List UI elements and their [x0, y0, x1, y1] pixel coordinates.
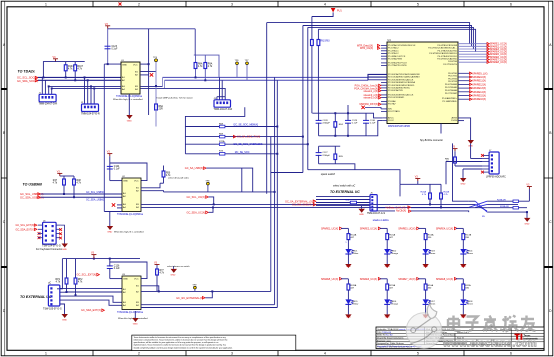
- chevrons right mid group: [470, 72, 472, 100]
- svg-text:I2C_SE_SOC_MEM(X): I2C_SE_SOC_MEM(X): [233, 123, 258, 126]
- svg-text:Green: Green: [429, 252, 436, 255]
- junction dots: [63, 193, 75, 198]
- net label MTR_Clk: [360, 47, 380, 50]
- power flag VDD rail: [91, 255, 96, 258]
- ground mcu right: [468, 140, 474, 148]
- svg-text:For Keyboard Connector: For Keyboard Connector: [36, 248, 62, 251]
- net label GC_SDA_UC: [187, 207, 214, 214]
- LED column 2 : net label SPARE_UC2: [360, 227, 381, 230]
- svg-text:R20A: R20A: [421, 191, 427, 194]
- svg-text:implementation. Texas Instrume: implementation. Texas Instruments and/or…: [134, 344, 226, 347]
- no-connect X on A3: [112, 203, 115, 206]
- logo disc: [406, 313, 442, 349]
- resistor R48: [73, 176, 82, 197]
- wire pullup rail: [60, 175, 74, 177]
- wire I2C_SE_SOC: [185, 151, 277, 156]
- svg-text:SPARE12(X): SPARE12(X): [472, 83, 486, 86]
- svg-text:R22A: R22A: [444, 191, 450, 194]
- power flag VDD above C124: [107, 154, 112, 157]
- svg-text:P6.2/TB2: P6.2/TB2: [448, 78, 458, 80]
- svg-text:P1.2/TA1.1: P1.2/TA1.1: [388, 49, 399, 52]
- wire VDD stem: [93, 257, 95, 258]
- svg-text:0.1uF: 0.1uF: [114, 268, 120, 270]
- svg-text:P4.4/TB4/UCB1CLK: P4.4/TB4/UCB1CLK: [438, 56, 458, 58]
- svg-text:4: 4: [324, 352, 326, 356]
- svg-text:stream1_n(X): stream1_n(X): [364, 90, 379, 93]
- wire flag feed: [312, 12, 333, 16]
- junction dots on pair: [195, 76, 207, 81]
- resistor RC4A + LED1 yellow + ground: [341, 228, 354, 268]
- ground floating: [171, 266, 178, 276]
- resistor R9A: [204, 55, 213, 80]
- svg-text:GND: GND: [385, 266, 390, 268]
- svg-text:GND: GND: [62, 320, 67, 322]
- svg-text:SPARE5_UC(X): SPARE5_UC(X): [321, 278, 338, 281]
- svg-text:P4.3/TB3/UCA1RXD/SMCLK: P4.3/TB3/UCA1RXD/SMCLK: [429, 52, 457, 55]
- svg-text:3: 3: [231, 352, 233, 356]
- no-connect X: [150, 73, 153, 76]
- IC1 pin wires left: [49, 86, 121, 88]
- svg-text:SPARE15(X): SPARE15(X): [472, 95, 486, 98]
- svg-text:1: 1: [45, 2, 47, 6]
- wire h 201: [469, 200, 476, 202]
- svg-text:stream0_n(X): stream0_n(X): [364, 97, 379, 100]
- LED column 1 : net label SPARE_UC1: [321, 227, 342, 230]
- chevrons: [35, 224, 37, 231]
- svg-text:P5.0/A8/VREF+: P5.0/A8/VREF+: [442, 97, 458, 100]
- junction dots: [48, 76, 95, 89]
- svg-text:P3.7/A7: P3.7/A7: [388, 103, 396, 106]
- wire scl continuation: [163, 76, 369, 78]
- power flag PU top: [331, 8, 343, 13]
- net label NoClk_CoM: [396, 210, 411, 213]
- power flag VDD: [453, 149, 458, 152]
- svg-text:RC9A: RC9A: [389, 284, 395, 287]
- svg-text:www.elecfans.com: www.elecfans.com: [442, 339, 537, 350]
- resistor R107: [74, 62, 84, 81]
- ground J4: [62, 244, 68, 252]
- svg-text:Yellow: Yellow: [352, 304, 359, 306]
- svg-text:select alarms on switch: select alarms on switch: [167, 265, 190, 268]
- svg-text:R62,R63: R62,R63: [321, 41, 331, 43]
- svg-text:Engineer: xxxx: Engineer: xxxx: [377, 339, 392, 342]
- mcu left pin stubs: [368, 45, 387, 120]
- connector J4 keyboard: [36, 220, 62, 251]
- svg-text:P6.0/TB0: P6.0/TB0: [448, 73, 458, 75]
- svg-text:R24A 0R: R24A 0R: [500, 205, 509, 208]
- svg-text:P2.2/UCB0STE/UCA0CLK: P2.2/UCB0STE/UCA0CLK: [388, 78, 414, 81]
- svg-text:R72A: R72A: [219, 140, 225, 143]
- wire from J3 down: [185, 107, 244, 126]
- net label GC_SDA_EXT2: [81, 309, 104, 312]
- LED column 6 : net label SPARE_UC6: [360, 278, 381, 281]
- connector J2 TMM-104: [81, 102, 100, 115]
- svg-text:R0A: R0A: [345, 198, 350, 201]
- svg-text:TXS0104E-Q1 AQF6RGu: TXS0104E-Q1 AQF6RGu: [117, 311, 144, 314]
- svg-text:GND: GND: [346, 317, 351, 319]
- wires to connector: [446, 159, 482, 185]
- wire usb branch: [241, 168, 243, 192]
- svg-text:P6.5/TB5/A5: P6.5/TB5/A5: [445, 86, 458, 89]
- svg-text:RC5A: RC5A: [389, 234, 395, 237]
- junction: [109, 258, 111, 260]
- capacitor C123: [105, 46, 118, 51]
- net label GC_SDL_UC: [187, 196, 214, 205]
- wire bus v3: [276, 127, 278, 308]
- svg-text:MTR_Clk(X): MTR_Clk(X): [360, 47, 373, 50]
- svg-text:2200pF: 2200pF: [322, 155, 330, 157]
- capacitor C126: [107, 266, 120, 271]
- wire GC_I2C_EXTERNAL: [141, 290, 271, 292]
- svg-text:SPARE11(X): SPARE11(X): [472, 80, 486, 83]
- test points TP6 TP7: [235, 60, 240, 77]
- power flag VDD left: [415, 179, 420, 182]
- wire mid v: [453, 143, 469, 201]
- svg-text:TO EXTERNAL UC: TO EXTERNAL UC: [20, 295, 52, 299]
- mcu left pin names: [388, 44, 420, 122]
- junction: [93, 258, 95, 260]
- wire bus v2: [274, 77, 276, 304]
- svg-text:GC_I2C_EXTERNAL(X): GC_I2C_EXTERNAL(X): [176, 297, 203, 300]
- IC U1 TXS0104E: [113, 60, 143, 101]
- resistor R20A: [421, 184, 432, 204]
- svg-text:information contained therein.: information contained therein. Texas Ins…: [134, 339, 228, 342]
- net labels left mid cluster: [354, 85, 378, 100]
- svg-text:TMM-104-07-D-R: TMM-104-07-D-R: [39, 103, 58, 106]
- svg-text:P2.5/UCA0RXD/ROSC: P2.5/UCA0RXD/ROSC: [388, 87, 410, 90]
- svg-text:TMM-104-07-D-R: TMM-104-07-D-R: [214, 108, 233, 111]
- svg-text:0.1uF: 0.1uF: [114, 169, 120, 171]
- svg-text:GND: GND: [525, 223, 530, 225]
- power flag VDD R77: [155, 264, 160, 266]
- svg-text:SPARE13(X): SPARE13(X): [472, 87, 486, 90]
- connector J5: [367, 193, 385, 215]
- ground J5: [359, 206, 365, 217]
- svg-text:RC4A: RC4A: [350, 234, 356, 237]
- svg-text:GC_SDA_USB60: GC_SDA_USB60: [86, 198, 105, 201]
- svg-text:GND: GND: [346, 266, 351, 268]
- svg-text:P1.4/SMCLK/TCK: P1.4/SMCLK/TCK: [388, 56, 406, 58]
- svg-text:GC_SCL_EXT(X): GC_SCL_EXT(X): [16, 224, 35, 227]
- svg-text:3: 3: [231, 2, 233, 6]
- mcu bottom stub X: [361, 106, 364, 109]
- svg-text:P4.5/TB5/UCA1RXD: P4.5/TB5/UCA1RXD: [437, 58, 457, 61]
- svg-text:2200pF: 2200pF: [322, 123, 330, 125]
- wire mcu run3: [308, 27, 474, 49]
- leaf: [427, 304, 437, 319]
- svg-text:SPARE9_L(X): SPARE9_L(X): [472, 72, 487, 75]
- IC1 right wires: [141, 29, 226, 115]
- svg-text:P3.6/A6: P3.6/A6: [388, 100, 396, 103]
- svg-text:GND: GND: [385, 317, 390, 319]
- svg-text:TMM-104-07-D-R: TMM-104-07-D-R: [81, 112, 100, 115]
- mcu right pin stubs mid group: [458, 73, 470, 99]
- svg-text:should completely validate and: should completely validate and test your…: [134, 346, 234, 349]
- wire drop v: [347, 105, 349, 113]
- wire rail1 top: [312, 113, 382, 118]
- resistor R24A inline: [500, 205, 519, 209]
- wire VDD down: [109, 156, 111, 180]
- svg-text:I2C_SE_SOC_OVERLEDS: I2C_SE_SOC_OVERLEDS: [233, 143, 263, 146]
- junction dots socnets: [276, 126, 309, 155]
- wire SDA to IC2: [41, 196, 122, 198]
- wire loop v2: [302, 26, 304, 173]
- svg-text:SPARE3_UC(X): SPARE3_UC(X): [398, 227, 415, 230]
- svg-text:Orange: Orange: [391, 252, 399, 255]
- test point TP1: [153, 57, 158, 104]
- resistor R104: [64, 62, 74, 78]
- power flag VDD: [57, 173, 62, 176]
- wire long pair B3: [141, 203, 475, 205]
- resistor R64: [334, 113, 344, 136]
- svg-text:GND: GND: [133, 324, 138, 326]
- svg-text:NoClk(X): NoClk(X): [396, 210, 406, 213]
- resistor RC7A + LED4 green + ground: [456, 228, 469, 268]
- chevron: [35, 79, 38, 82]
- connector J6: [486, 150, 506, 178]
- svg-text:GC_SDA_EXT(X): GC_SDA_EXT(X): [16, 228, 35, 231]
- LED column 8 : net label SPARE_UC8: [436, 278, 457, 281]
- svg-text:AVCC: AVCC: [388, 117, 394, 120]
- svg-text:TO USB960: TO USB960: [23, 182, 43, 186]
- svg-text:2: 2: [138, 2, 140, 6]
- svg-text:DVCC: DVCC: [388, 120, 395, 122]
- svg-text:P2.0/UCA0TXD/CA2/UCA0SOMI: P2.0/UCA0TXD/CA2/UCA0SOMI: [388, 73, 420, 76]
- svg-text:GC_SA_USB(X): GC_SA_USB(X): [185, 167, 204, 170]
- resistor RP2: [74, 259, 83, 296]
- svg-text:TXS0104E-Q1 AQF6RGu: TXS0104E-Q1 AQF6RGu: [117, 213, 144, 216]
- chevron: [38, 196, 41, 199]
- capacitor C127: [316, 146, 331, 164]
- wire I2C pair SDA: [38, 79, 121, 81]
- wire I2C_SE_SOC_MEM: [185, 123, 277, 127]
- LED column 5 : net label SPARE_UC5: [321, 278, 342, 281]
- svg-text:R11A: R11A: [465, 284, 471, 287]
- svg-text:Drawn By Texas Instruments: Drawn By Texas Instruments: [377, 337, 403, 340]
- wire IC3 B1 long: [141, 286, 159, 292]
- resistor RP1: [56, 259, 68, 292]
- wire VCC stub: [110, 163, 147, 181]
- svg-text:P1.3/TA1.2: P1.3/TA1.2: [388, 52, 399, 55]
- svg-text:P6.4/TB4/A4: P6.4/TB4/A4: [445, 83, 458, 86]
- wire to IC2 GND/VCC: [110, 180, 122, 182]
- wire mcu run2: [303, 26, 472, 47]
- ground right: [524, 212, 530, 225]
- wire top rail: [43, 62, 84, 78]
- svg-text:GND: GND: [461, 184, 466, 186]
- power flag VDD: [53, 59, 58, 62]
- IC U2 TXS0104E: [114, 176, 144, 233]
- svg-text:R6A: R6A: [159, 105, 164, 108]
- resistor RC5A + LED2 orange + ground: [380, 228, 393, 268]
- svg-text:MSP430_RST(X): MSP430_RST(X): [360, 103, 379, 106]
- svg-text:P1.1/TA0.2: P1.1/TA0.2: [388, 47, 399, 50]
- wire sda continuation: [165, 79, 369, 81]
- svg-text:GC_SCL_USB60: GC_SCL_USB60: [86, 192, 104, 194]
- net label GC_SCL_EXT: [77, 273, 100, 276]
- svg-text:SPARE14(X): SPARE14(X): [472, 91, 486, 94]
- svg-text:select switch with uC: select switch with uC: [333, 185, 355, 188]
- wire top rail: [62, 258, 140, 260]
- svg-text:4: 4: [324, 2, 326, 6]
- chinese watermark text fa: [483, 316, 498, 332]
- wire long to J5: [308, 170, 400, 185]
- svg-text:P4.6/TB6: P4.6/TB6: [448, 61, 458, 63]
- svg-text:GND: GND: [423, 266, 428, 268]
- no-connect X right pins: [59, 228, 62, 239]
- power flag VDD right: [527, 187, 532, 190]
- chinese watermark text you: [521, 316, 536, 332]
- wire rail drop left: [57, 259, 62, 289]
- LED column 3 : net label SPARE_UC3: [398, 227, 419, 230]
- svg-text:VCC: VCC: [134, 181, 139, 183]
- svg-text:P6.7/TB7/A7: P6.7/TB7/A7: [445, 92, 458, 95]
- net labels right mid group: [472, 72, 487, 101]
- connector J7 right wires: [60, 288, 122, 314]
- svg-text:GC_SDA_UC(X): GC_SDA_UC(X): [187, 211, 206, 214]
- wires to connector J1: [42, 77, 51, 94]
- svg-text:P3.1/UCB1SIMO: P3.1/UCB1SIMO: [388, 97, 405, 99]
- svg-text:GND: GND: [122, 65, 127, 67]
- resistor R50 pullup: [162, 166, 171, 184]
- test point TP8: [205, 180, 210, 192]
- svg-text:GND: GND: [107, 232, 112, 234]
- no-connect X left pins: [38, 232, 41, 239]
- ground sbw: [460, 178, 466, 186]
- wire pullup rail: [400, 183, 441, 185]
- LED column 7 : net label SPARE_UC7: [398, 278, 419, 281]
- net label NoData_CoM: [386, 206, 411, 209]
- capacitor C129: [345, 113, 358, 136]
- wire bus left vertical: [184, 127, 186, 154]
- svg-text:0.1uF: 0.1uF: [352, 123, 358, 125]
- mcu right pin names: [428, 45, 458, 122]
- svg-text:SPARE1_UC(X): SPARE1_UC(X): [321, 227, 338, 230]
- svg-text:SPARE6_UC(X): SPARE6_UC(X): [360, 278, 377, 281]
- svg-text:When A is high, B is controlle: When A is high, B is controlled: [114, 230, 144, 233]
- pin stub wires: [38, 225, 65, 243]
- svg-text:spare switch: spare switch: [321, 172, 336, 176]
- svg-text:P2.6/UCA0TXD: P2.6/UCA0TXD: [388, 89, 403, 92]
- wire IC1 bottom to gnd: [128, 94, 130, 111]
- svg-text:Orange: Orange: [391, 303, 399, 306]
- ground GND under IC1: [126, 111, 132, 123]
- chinese watermark text shao: [503, 316, 519, 332]
- svg-text:Texas Instruments and/or its l: Texas Instruments and/or its licensors d…: [134, 336, 226, 339]
- svg-text:When A is high, B is controlle: When A is high, B is controlled: [113, 98, 143, 101]
- svg-text:XIN: XIN: [388, 109, 392, 111]
- net label MTR_Data1: [357, 44, 380, 47]
- svg-text:P1.5/TA0/TMS: P1.5/TA0/TMS: [388, 58, 402, 61]
- svg-text:DVSS: DVSS: [451, 120, 457, 122]
- svg-text:R9A: R9A: [208, 63, 213, 66]
- wire pair right from J5: [377, 208, 487, 212]
- chevrons left cluster: [379, 84, 381, 99]
- svg-text:TO EXTERNAL UC: TO EXTERNAL UC: [330, 190, 360, 194]
- svg-text:Spy-Bi-Wire connector: Spy-Bi-Wire connector: [420, 139, 443, 142]
- svg-text:GND: GND: [62, 249, 67, 251]
- resistor R77: [156, 265, 165, 292]
- svg-text:R23A 0R: R23A 0R: [497, 198, 506, 201]
- svg-text:GND: GND: [123, 279, 128, 281]
- wire vdd stem right: [528, 189, 530, 201]
- junction: [107, 63, 109, 65]
- svg-text:Install eMIF pull white, TxS f: Install eMIF pull white, TxS for slower: [157, 96, 193, 99]
- mcu bottom right stubs: [441, 118, 471, 140]
- resistor R23A inline: [497, 198, 519, 202]
- capacitor C128: [316, 113, 331, 136]
- wire IC1 gnd pin: [104, 63, 121, 65]
- svg-text:P6.3/TB3: P6.3/TB3: [448, 81, 458, 83]
- resistor RC8A + LED5 yellow + ground: [341, 279, 354, 319]
- wire gnd net vertical: [103, 64, 105, 211]
- wires into J5: [316, 184, 400, 205]
- svg-text:VCC: VCC: [134, 279, 139, 281]
- wire spare h: [271, 172, 303, 174]
- svg-text:P4.2/TB2/UCA1TXD: P4.2/TB2/UCA1TXD: [437, 49, 457, 52]
- svg-text:P4.7/TBOUTH: P4.7/TBOUTH: [443, 64, 457, 66]
- connector J7: [43, 285, 62, 311]
- svg-text:1: 1: [45, 352, 47, 356]
- svg-text:GC_SDA_EXT(X): GC_SDA_EXT(X): [81, 309, 101, 312]
- svg-text:P2.3/UCB0SIMO/UCB0SDA: P2.3/UCB0SIMO/UCB0SDA: [388, 81, 415, 84]
- ground under IC2: [104, 212, 122, 234]
- wire RP2 to wire: [75, 294, 77, 297]
- svg-text:GND: GND: [461, 317, 466, 319]
- svg-text:RC8A: RC8A: [350, 284, 356, 287]
- svg-text:RC7A: RC7A: [465, 234, 471, 237]
- junction: [158, 290, 160, 292]
- svg-text:P6.6/TB6/A6: P6.6/TB6/A6: [445, 89, 458, 92]
- wire dvcc drop: [368, 121, 383, 136]
- svg-text:R8A: R8A: [198, 63, 203, 66]
- wire swap diag1: [469, 201, 487, 212]
- svg-text:XOUT/TA1S: XOUT/TA1S: [388, 110, 400, 113]
- wire rail2 bottom: [319, 164, 355, 170]
- svg-text:0.1uF: 0.1uF: [112, 48, 118, 50]
- LED column 4 : net label SPARE_UC4: [436, 227, 457, 230]
- no-connect X pins: [481, 154, 484, 174]
- net label MSP430 RST: [360, 103, 381, 106]
- wire rail2 top: [319, 145, 341, 147]
- wire SCL to IC2: [41, 193, 122, 195]
- svg-text:Designed for: Public Release: Designed for: Public Release: [377, 342, 405, 345]
- wire long pair B4: [141, 206, 469, 208]
- svg-text:AVSS: AVSS: [451, 117, 457, 120]
- wire horizontal to right bus: [164, 191, 275, 193]
- svg-text:5: 5: [417, 2, 419, 6]
- net labels right top group: [490, 43, 507, 64]
- svg-text:GND: GND: [171, 274, 176, 276]
- junction dots: [66, 291, 77, 296]
- ground under IC3: [132, 311, 138, 326]
- svg-text:PU1: PU1: [337, 10, 342, 13]
- svg-text:SPARE8_UC(X): SPARE8_UC(X): [490, 61, 507, 64]
- test point TP9: [192, 284, 197, 291]
- svg-text:P2.4/UCB0SOMI/UCB0SCL: P2.4/UCB0SOMI/UCB0SCL: [388, 85, 415, 87]
- wire sbw test: [470, 143, 472, 158]
- wire loop v1: [266, 23, 268, 194]
- wire mcu run4: [318, 29, 475, 51]
- svg-text:P1.6/TA1/TDI/TCLK: P1.6/TA1/TDI/TCLK: [388, 62, 407, 65]
- wire GC_SA_USB join: [160, 182, 164, 184]
- connector stubs: [482, 155, 489, 172]
- chevron: [38, 193, 41, 196]
- connector J1 TMM-104: [39, 92, 58, 105]
- svg-text:0.1uF: 0.1uF: [370, 123, 376, 125]
- net label GC_SA_EXTERNAL: [285, 200, 316, 203]
- svg-text:P4.1/TB1/UCB1SIMO/UCA1...: P4.1/TB1/UCB1SIMO/UCA1...: [428, 47, 457, 50]
